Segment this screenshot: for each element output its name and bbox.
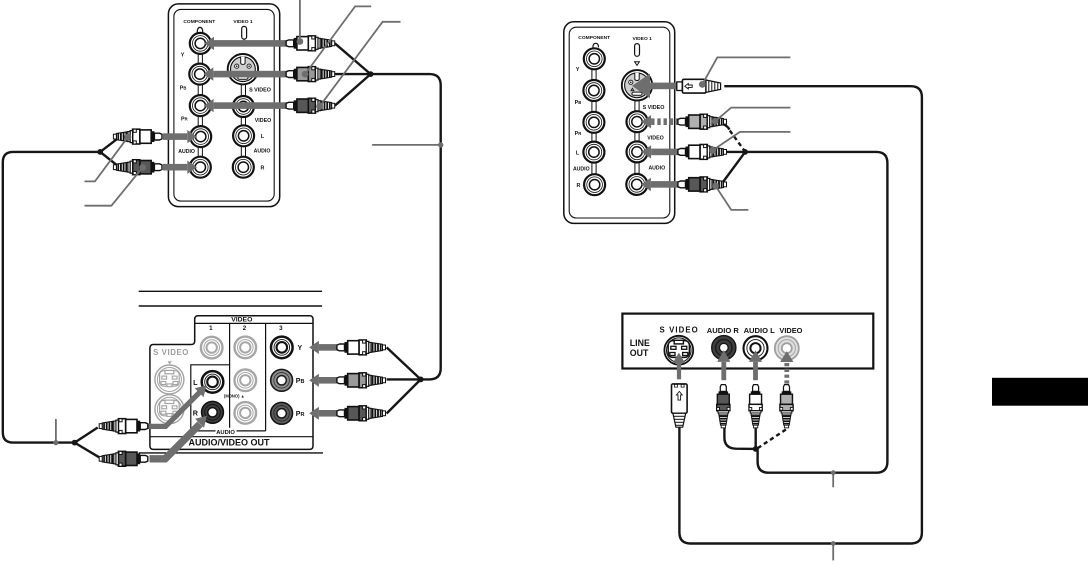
svg-text:AUDIO/VIDEO OUT: AUDIO/VIDEO OUT: [188, 438, 270, 448]
svg-text:Y: Y: [181, 53, 185, 59]
svg-text:AUDIO: AUDIO: [254, 148, 271, 154]
svg-text:VIDEO: VIDEO: [231, 316, 252, 323]
svg-text:OUT: OUT: [630, 348, 649, 358]
svg-text:PR: PR: [296, 411, 305, 418]
svg-text:2: 2: [243, 325, 247, 332]
svg-text:VIDEO: VIDEO: [255, 118, 271, 124]
svg-text:VIDEO: VIDEO: [647, 135, 663, 141]
svg-text:COMPONENT: COMPONENT: [183, 19, 215, 25]
svg-text:COMPONENT: COMPONENT: [578, 35, 610, 41]
svg-text:Y: Y: [298, 345, 303, 352]
svg-text:S VIDEO: S VIDEO: [249, 88, 271, 94]
svg-text:VIDEO 1: VIDEO 1: [633, 36, 653, 42]
svg-text:AUDIO: AUDIO: [648, 165, 665, 171]
svg-text:1: 1: [209, 325, 213, 332]
svg-text:AUDIO: AUDIO: [216, 430, 235, 436]
svg-text:S VIDEO: S VIDEO: [643, 105, 665, 111]
svg-text:R: R: [261, 166, 265, 172]
svg-text:S VIDEO: S VIDEO: [153, 348, 189, 357]
svg-text:3: 3: [279, 325, 283, 332]
svg-text:AUDIO L: AUDIO L: [744, 326, 776, 335]
svg-text:AUDIO: AUDIO: [573, 167, 590, 173]
svg-text:Y: Y: [576, 67, 580, 73]
svg-text:R: R: [193, 408, 199, 417]
svg-text:AUDIO: AUDIO: [178, 149, 195, 155]
svg-text:L: L: [193, 378, 198, 387]
svg-text:VIDEO: VIDEO: [779, 326, 802, 335]
svg-text:(MONO) ▲: (MONO) ▲: [224, 394, 245, 399]
svg-text:AUDIO R: AUDIO R: [707, 326, 740, 335]
svg-text:LINE: LINE: [630, 338, 650, 348]
svg-text:R: R: [577, 183, 581, 189]
svg-text:S VIDEO: S VIDEO: [660, 326, 699, 335]
svg-text:PB: PB: [296, 378, 305, 385]
svg-text:VIDEO 1: VIDEO 1: [233, 19, 253, 25]
